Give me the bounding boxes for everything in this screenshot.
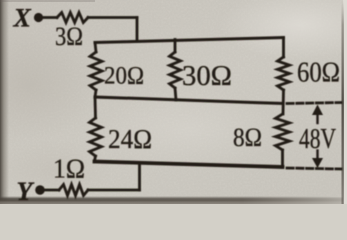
wire drop into top rail xyxy=(136,18,139,41)
wire 30ohm to middle rail xyxy=(175,88,176,100)
wire 60ohm through middle junction to 8ohm xyxy=(282,90,285,114)
node Y terminal dot xyxy=(35,185,45,195)
svg-text:8Ω: 8Ω xyxy=(233,123,262,152)
svg-text:X: X xyxy=(13,4,32,33)
svg-text:60Ω: 60Ω xyxy=(297,58,340,89)
resistor 20ohm xyxy=(90,52,102,90)
resistor 3ohm (horizontal zigzag) xyxy=(57,13,88,23)
dashed line middle rail extension xyxy=(287,103,341,104)
wire Y riser xyxy=(138,164,141,191)
svg-text:1Ω: 1Ω xyxy=(53,154,85,184)
wire right column upper (top rail to 60ohm) xyxy=(282,38,285,58)
resistor 30ohm xyxy=(170,52,181,88)
wire left column lower (middle rail to 24ohm) xyxy=(94,97,97,118)
resistor 1ohm (horizontal zigzag) xyxy=(59,185,88,196)
svg-text:20Ω: 20Ω xyxy=(104,63,144,90)
dashed line bottom rail extension xyxy=(287,168,341,169)
wire bottom rail xyxy=(95,162,283,168)
svg-text:30Ω: 30Ω xyxy=(182,61,232,92)
wire Y resistor to riser xyxy=(88,189,140,192)
svg-text:3Ω: 3Ω xyxy=(55,22,83,51)
wire 8ohm to bottom rail xyxy=(281,150,284,167)
node X terminal dot xyxy=(34,13,43,22)
wire Y dot to 1ohm xyxy=(45,189,59,192)
svg-text:48V: 48V xyxy=(299,124,336,155)
svg-text:24Ω: 24Ω xyxy=(108,124,152,154)
resistor 8ohm xyxy=(276,114,290,150)
wire X dot to resistor xyxy=(43,16,57,19)
wire 20ohm to middle rail xyxy=(95,90,96,97)
wire left column upper (top rail to 20ohm) xyxy=(95,43,96,53)
wire top rail xyxy=(95,38,284,43)
wire 3ohm to top drop xyxy=(88,16,137,19)
wire middle rail xyxy=(95,97,283,104)
svg-text:Y: Y xyxy=(17,177,35,204)
resistor 24ohm xyxy=(90,118,102,156)
resistor 60ohm xyxy=(278,57,290,90)
arrow down (48V bottom) xyxy=(312,151,323,169)
arrow up (48V top) xyxy=(312,105,323,124)
wire 24ohm to bottom rail xyxy=(95,156,96,161)
wire 30ohm branch upper xyxy=(174,40,177,53)
